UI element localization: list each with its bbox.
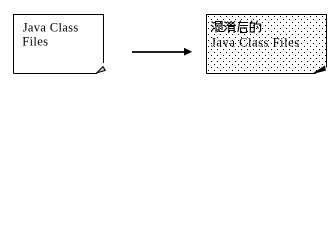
glyph 后 <box>238 21 248 33</box>
glyph 混 <box>212 22 223 33</box>
note: obfuscated Java Class Files (dotted fill) <box>207 15 327 74</box>
folded corner of plain note <box>97 67 106 73</box>
svg-text:Java Class Files: Java Class Files <box>211 35 300 49</box>
note: Java Class Files (plain) <box>14 15 104 74</box>
folded corner of obfuscated note (solid black flap) <box>314 66 326 73</box>
svg-text:Files: Files <box>22 35 48 49</box>
svg-text:Java Class: Java Class <box>23 21 79 35</box>
glyph 的 <box>250 21 260 32</box>
glyph 淆 <box>224 22 235 33</box>
arrow between notes <box>132 48 192 56</box>
label: 混淆后的 (hand-drawn glyph strokes) <box>212 21 261 33</box>
